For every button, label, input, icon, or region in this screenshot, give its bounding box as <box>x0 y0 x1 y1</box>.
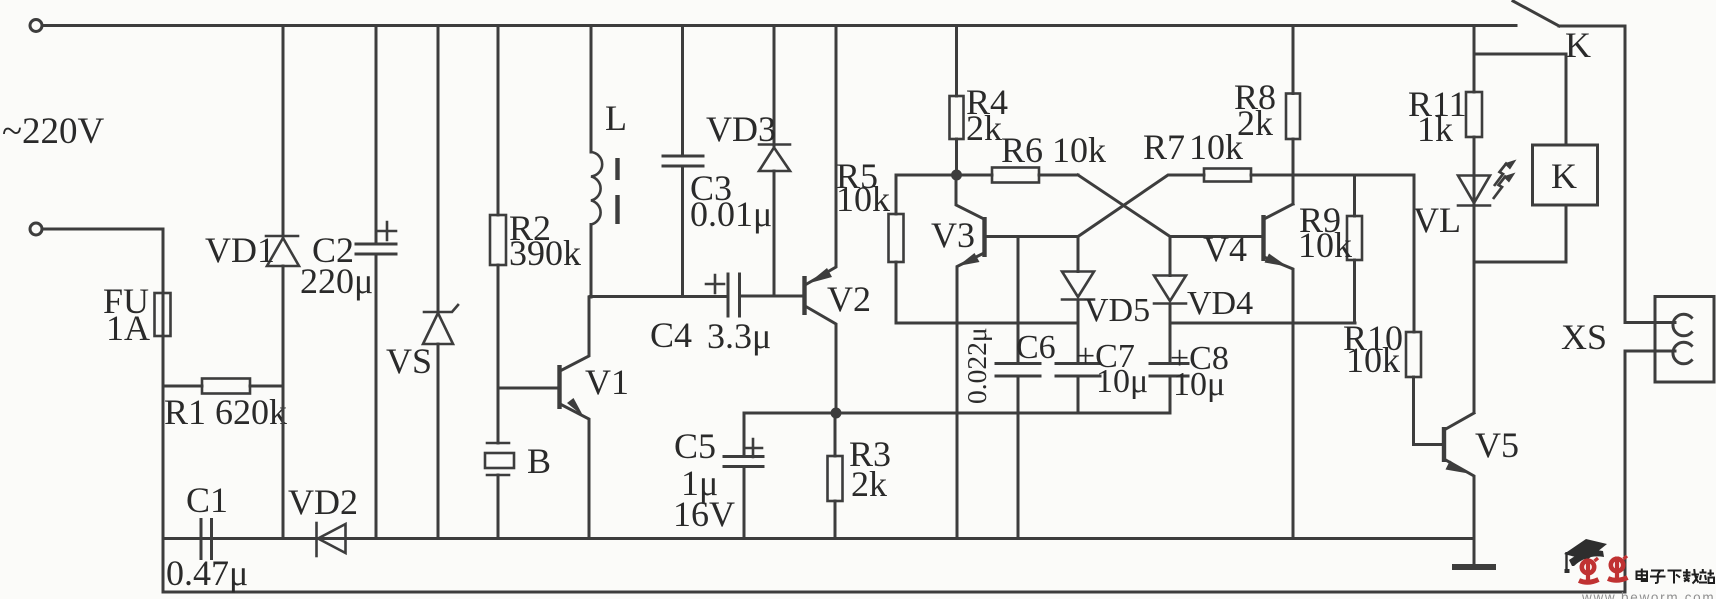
relay coil K <box>1533 145 1598 262</box>
diode VD2 <box>288 482 438 556</box>
capacitor C2 <box>300 26 396 539</box>
svg-text:K: K <box>1551 156 1577 196</box>
wire cross diagonal R6 to V4 base <box>1078 175 1263 237</box>
svg-text:10k: 10k <box>1346 340 1400 380</box>
resistor R1 <box>163 379 287 433</box>
wire VL to V5 collector <box>1473 262 1476 412</box>
resistor R6 <box>957 130 1107 183</box>
capacitor C7 <box>1056 338 1148 413</box>
svg-text:0.47μ: 0.47μ <box>166 553 248 593</box>
wire top rail <box>42 24 1516 27</box>
svg-text:C1: C1 <box>186 480 228 520</box>
transistor V5 <box>1444 413 1519 567</box>
capacitor C3 <box>663 26 772 297</box>
diode VD5 <box>1062 237 1150 364</box>
wire R11 branch to relay <box>1474 54 1566 145</box>
svg-text:0.022μ: 0.022μ <box>961 327 992 404</box>
svg-text:16V: 16V <box>673 494 735 534</box>
svg-text:V3: V3 <box>931 215 975 255</box>
transistor V2 <box>805 26 872 414</box>
svg-text:220μ: 220μ <box>300 261 373 301</box>
svg-text:V2: V2 <box>827 279 871 319</box>
svg-text:390k: 390k <box>509 233 581 273</box>
svg-text:1A: 1A <box>106 308 150 348</box>
svg-text:10μ: 10μ <box>1173 366 1225 403</box>
svg-text:10k: 10k <box>1298 225 1352 265</box>
diode VD4 <box>1154 237 1253 364</box>
svg-text:VD5: VD5 <box>1084 292 1150 329</box>
wire bottom border rail <box>163 591 1625 594</box>
switch K <box>1513 1 1625 65</box>
wire socket lower contact to bottom rail <box>1625 351 1675 592</box>
resistor R8 <box>1234 26 1300 205</box>
svg-text:2k: 2k <box>966 108 1002 148</box>
wire cross diagonal V3 base to R7 <box>1078 175 1204 237</box>
svg-text:VD2: VD2 <box>288 482 358 522</box>
svg-text:C4: C4 <box>650 315 692 355</box>
inductor L <box>591 26 627 298</box>
terminal upper 220V <box>30 20 42 32</box>
wire VD1 column <box>282 26 285 539</box>
transistor V3 <box>931 175 1078 539</box>
svg-text:~220V: ~220V <box>2 111 105 152</box>
svg-text:V5: V5 <box>1475 425 1519 465</box>
capacitor C5 <box>673 413 763 539</box>
svg-text:VL: VL <box>1413 200 1461 240</box>
svg-text:XS: XS <box>1561 317 1607 357</box>
resistor R3 <box>828 413 892 539</box>
resistor R7 <box>1143 127 1414 182</box>
zener diode VS <box>386 26 458 539</box>
wire emitter bus y323 left <box>896 322 1078 325</box>
watermark chongchong red <box>1579 556 1628 582</box>
socket XS <box>1561 297 1714 383</box>
svg-text:R6 10k: R6 10k <box>1001 130 1106 170</box>
wire bottom ground rail <box>163 537 1473 540</box>
node emitter V2 junction <box>831 408 842 419</box>
svg-text:1k: 1k <box>1417 109 1453 149</box>
ground <box>1452 564 1496 570</box>
wire emitter bus y413 <box>744 412 1170 415</box>
svg-text:V1: V1 <box>585 362 629 402</box>
svg-text:2k: 2k <box>1237 103 1273 143</box>
svg-text:VD4: VD4 <box>1187 285 1253 322</box>
fuse FU1 <box>103 281 171 348</box>
svg-text:K: K <box>1565 25 1591 65</box>
svg-text:B: B <box>527 441 551 481</box>
LED VL <box>1413 160 1517 263</box>
wire lower terminal to fuse column <box>42 229 163 592</box>
wire right column to socket upper contact <box>1625 26 1675 323</box>
svg-text:VD1: VD1 <box>205 230 275 270</box>
svg-text:www.beworm.com: www.beworm.com <box>1581 590 1715 599</box>
svg-text:C6: C6 <box>1016 329 1056 366</box>
svg-text:VS: VS <box>386 341 432 381</box>
svg-text:V4: V4 <box>1203 229 1247 269</box>
watermark site name <box>1637 569 1715 584</box>
diode VD3 <box>706 26 790 297</box>
svg-text:2k: 2k <box>851 464 887 504</box>
svg-text:10k: 10k <box>836 179 890 219</box>
capacitor C1 <box>163 480 317 593</box>
resistor R9 <box>1298 175 1362 323</box>
wire VL/relay bottom bus <box>1474 261 1566 264</box>
capacitor C6 <box>961 237 1056 539</box>
svg-text:C5: C5 <box>674 426 716 466</box>
svg-text:VD3: VD3 <box>706 109 776 149</box>
transistor V1 <box>498 297 629 539</box>
node ~220V label <box>2 111 105 152</box>
piezo sounder B <box>485 388 551 539</box>
svg-text:R1 620k: R1 620k <box>164 392 287 432</box>
capacitor C4 <box>650 274 804 356</box>
wire node A collector V1 / L / C3 <box>590 295 728 298</box>
watermark url <box>1581 590 1715 599</box>
resistor R10 <box>1343 175 1444 445</box>
svg-text:10k: 10k <box>1189 127 1243 167</box>
svg-text:R7: R7 <box>1143 127 1185 167</box>
resistor R4 <box>950 26 1009 176</box>
terminal lower 220V <box>30 223 42 235</box>
svg-text:L: L <box>605 98 627 138</box>
resistor R11 <box>1408 26 1482 206</box>
capacitor C8 <box>1150 340 1229 413</box>
watermark logo cap <box>1564 539 1607 573</box>
wire emitter bus y323 right <box>1170 322 1355 325</box>
diode VD1 <box>205 230 299 270</box>
resistor R5 <box>836 156 957 323</box>
svg-text:0.01μ: 0.01μ <box>690 194 772 234</box>
node junction R4/R6/V3 <box>951 170 962 181</box>
svg-text:3.3μ: 3.3μ <box>707 316 771 356</box>
resistor R2 <box>490 26 581 389</box>
transistor V4 <box>1203 204 1293 539</box>
svg-text:10μ: 10μ <box>1096 363 1148 400</box>
